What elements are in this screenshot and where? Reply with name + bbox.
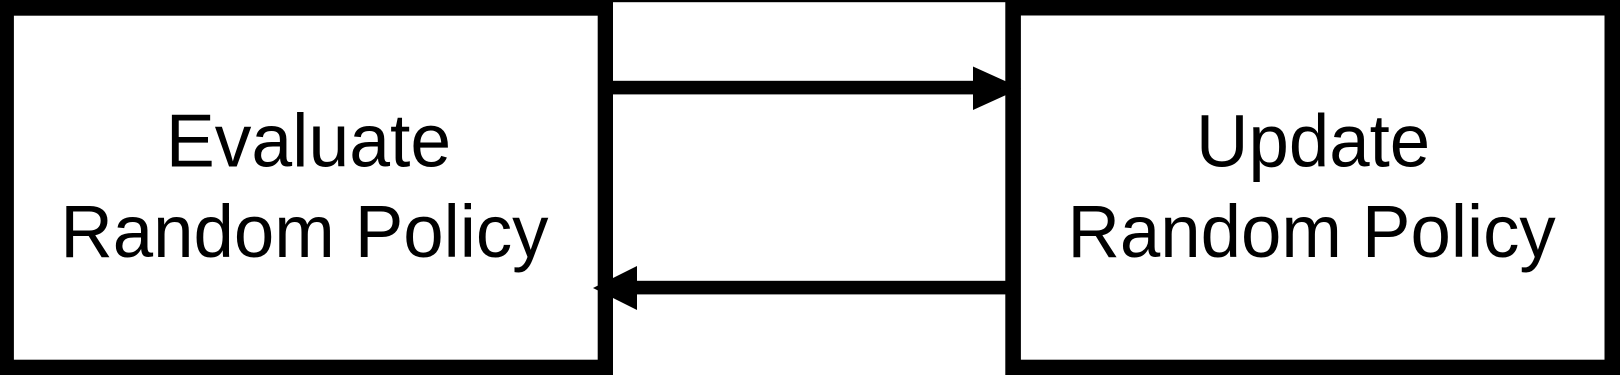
- box: Evaluate Random Policy (interior): [14, 16, 598, 360]
- svg-text:Random Policy: Random Policy: [1068, 189, 1556, 273]
- box: Update Random Policy (interior): [1021, 16, 1605, 360]
- arrow: right-to-left shaft: [635, 281, 1013, 295]
- top crop line: [0, 0, 1620, 2]
- arrow: right-to-left head: [593, 266, 637, 310]
- box: Update Random Policy (border): [1005, 1, 1620, 375]
- arrow: left-to-right head: [973, 67, 1021, 111]
- box: Evaluate Random Policy (border): [0, 1, 613, 375]
- arrow: left-to-right shaft: [605, 81, 975, 95]
- svg-text:Random Policy: Random Policy: [60, 189, 548, 273]
- svg-text:Evaluate: Evaluate: [166, 99, 451, 183]
- svg-text:Update: Update: [1196, 99, 1430, 183]
